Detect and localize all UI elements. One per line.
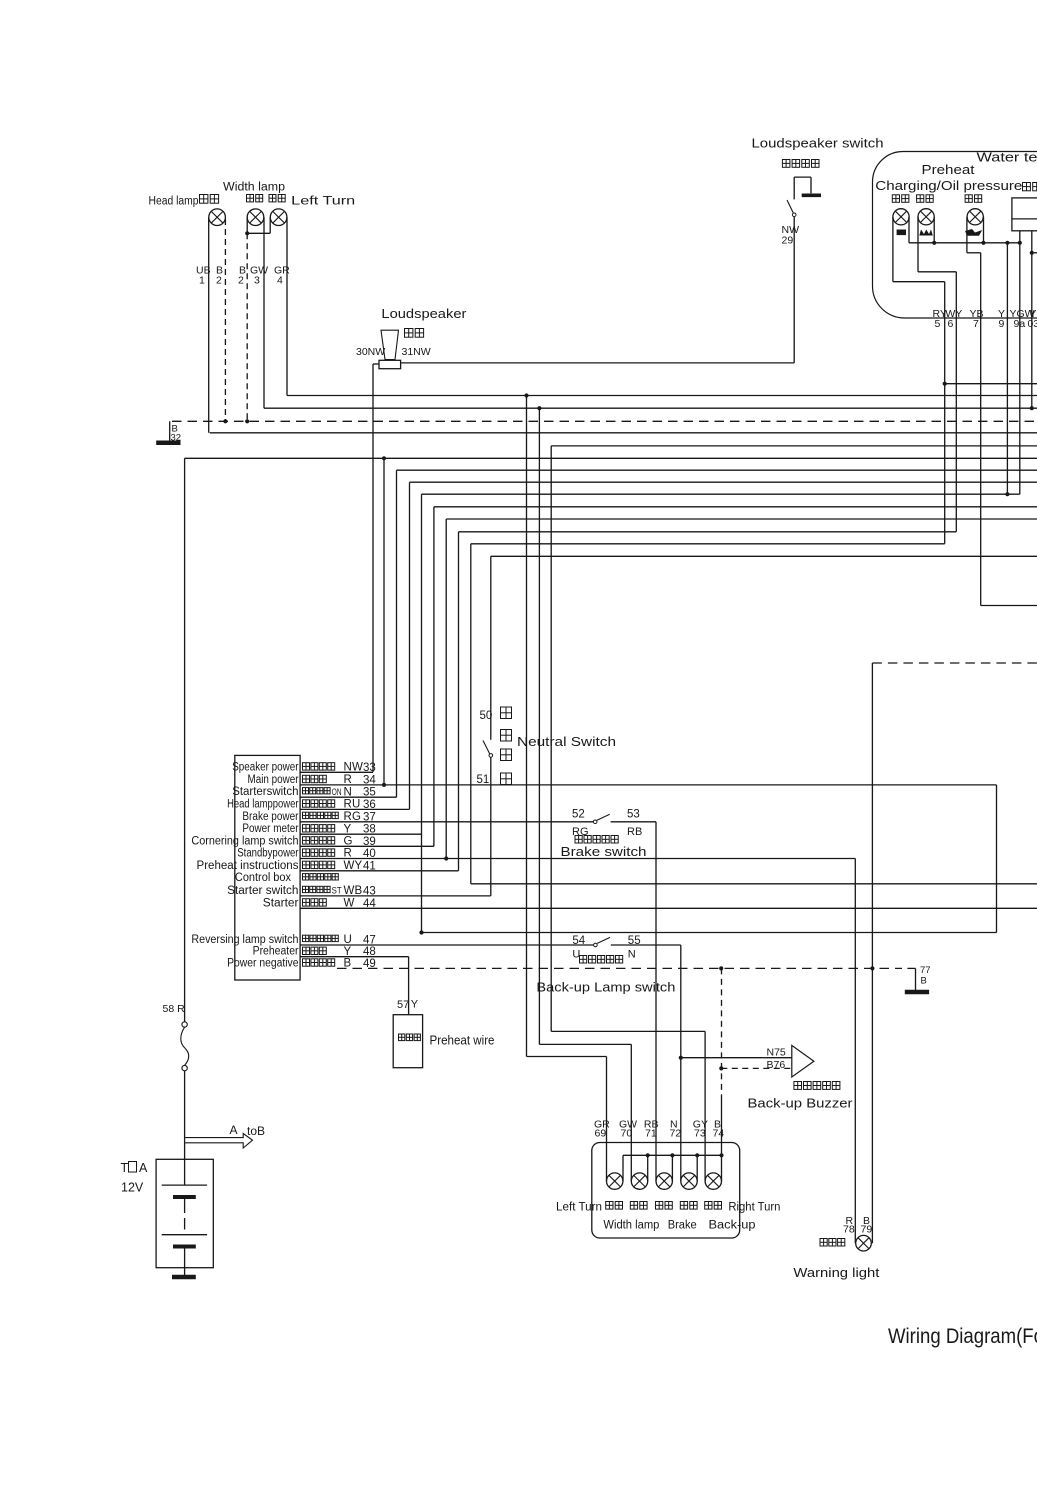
svg-text:N: N: [628, 949, 636, 961]
svg-text:A: A: [139, 1161, 148, 1175]
svg-text:Control box: Control box: [235, 872, 291, 884]
svg-text:9a: 9a: [1014, 318, 1026, 330]
svg-text:50: 50: [480, 710, 493, 722]
svg-text:31NW: 31NW: [402, 346, 431, 358]
svg-text:Back-up Lamp switch: Back-up Lamp switch: [536, 981, 675, 995]
svg-text:RG: RG: [572, 826, 589, 838]
svg-text:Head lamppower: Head lamppower: [227, 798, 299, 810]
svg-text:Warning light: Warning light: [793, 1265, 879, 1280]
svg-text:Starter: Starter: [263, 897, 299, 909]
svg-text:B: B: [921, 976, 927, 987]
svg-text:A: A: [230, 1123, 238, 1137]
svg-text:79: 79: [861, 1224, 873, 1236]
svg-text:Reversing lamp switch: Reversing lamp switch: [191, 934, 298, 946]
svg-text:Starter switch: Starter switch: [227, 885, 298, 897]
svg-text:Preheat: Preheat: [922, 163, 976, 177]
svg-text:B76: B76: [767, 1059, 786, 1071]
svg-text:57: 57: [397, 999, 409, 1011]
svg-text:73: 73: [694, 1128, 706, 1140]
svg-text:Charging/Oil pressure: Charging/Oil pressure: [875, 179, 1022, 193]
svg-text:7: 7: [973, 318, 979, 330]
svg-text:6: 6: [948, 318, 954, 330]
svg-text:Starterswitch: Starterswitch: [232, 786, 298, 798]
svg-text:Neutral Switch: Neutral Switch: [517, 735, 616, 749]
svg-text:Back-up Buzzer: Back-up Buzzer: [748, 1097, 853, 1111]
svg-text:3: 3: [254, 275, 260, 287]
svg-text:toB: toB: [247, 1124, 265, 1138]
svg-text:4: 4: [277, 275, 283, 287]
svg-text:03: 03: [1028, 318, 1037, 330]
svg-text:Water te: Water te: [977, 151, 1037, 165]
svg-text:Power negative: Power negative: [227, 957, 298, 969]
svg-text:71: 71: [645, 1128, 657, 1140]
svg-text:54: 54: [572, 935, 585, 947]
svg-text:ST: ST: [332, 886, 342, 897]
svg-text:70: 70: [621, 1128, 633, 1140]
svg-text:U: U: [344, 934, 353, 946]
svg-text:Cornering lamp switch: Cornering lamp switch: [191, 835, 298, 847]
svg-text:Power meter: Power meter: [242, 823, 298, 835]
svg-text:Preheat wire: Preheat wire: [430, 1034, 495, 1048]
svg-text:Brake switch: Brake switch: [561, 845, 647, 859]
svg-text:Loudspeaker: Loudspeaker: [381, 307, 466, 321]
svg-text:Speaker power: Speaker power: [232, 761, 298, 773]
svg-text:12V: 12V: [121, 1181, 144, 1195]
svg-text:5: 5: [935, 318, 941, 330]
svg-text:53: 53: [627, 809, 640, 821]
svg-text:1: 1: [199, 275, 205, 287]
svg-text:2: 2: [238, 275, 244, 287]
svg-text:78: 78: [843, 1224, 855, 1236]
svg-text:Main power: Main power: [248, 774, 299, 786]
svg-text:74: 74: [713, 1128, 725, 1140]
svg-text:ON: ON: [332, 787, 342, 798]
svg-text:T: T: [121, 1161, 129, 1175]
svg-text:Width lamp: Width lamp: [223, 182, 285, 194]
svg-text:72: 72: [670, 1128, 682, 1140]
svg-text:Brake power: Brake power: [242, 811, 298, 823]
svg-text:Brake: Brake: [668, 1220, 697, 1232]
svg-text:N75: N75: [767, 1046, 786, 1058]
svg-text:51: 51: [477, 774, 490, 786]
svg-text:Left Turn: Left Turn: [291, 196, 355, 208]
svg-text:Right Turn: Right Turn: [728, 1202, 780, 1214]
svg-text:Head lamp: Head lamp: [149, 196, 199, 208]
svg-text:29: 29: [782, 235, 794, 247]
svg-text:58 R: 58 R: [163, 1003, 186, 1015]
svg-text:30NW: 30NW: [356, 346, 385, 358]
svg-text:Standbypower: Standbypower: [237, 848, 298, 860]
svg-text:Loudspeaker switch: Loudspeaker switch: [752, 137, 884, 151]
svg-text:Width lamp: Width lamp: [603, 1220, 659, 1232]
svg-text:Preheater: Preheater: [253, 946, 299, 958]
svg-text:69: 69: [595, 1128, 607, 1140]
svg-text:RB: RB: [627, 826, 642, 838]
svg-text:Left Turn: Left Turn: [556, 1202, 602, 1214]
svg-text:32: 32: [171, 433, 182, 444]
svg-text:9: 9: [999, 318, 1005, 330]
svg-text:2: 2: [216, 275, 222, 287]
svg-text:Wiring Diagram(Fo: Wiring Diagram(Fo: [888, 1325, 1037, 1348]
svg-text:Y: Y: [411, 999, 419, 1011]
svg-text:Preheat instructions: Preheat instructions: [197, 860, 299, 872]
svg-text:Back-up: Back-up: [709, 1220, 756, 1232]
svg-text:55: 55: [628, 935, 641, 947]
svg-text:52: 52: [572, 809, 585, 821]
svg-text:77: 77: [920, 965, 931, 976]
